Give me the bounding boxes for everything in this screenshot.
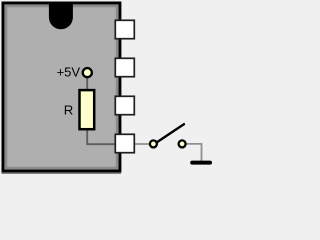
pin 1 bbox=[115, 20, 134, 38]
wire switch S1 to ground bbox=[187, 144, 202, 162]
IC notch bbox=[49, 2, 73, 30]
pin 4 bbox=[115, 134, 134, 152]
ground bbox=[192, 161, 210, 165]
switch S1 lever bbox=[157, 124, 184, 142]
node +5V bbox=[83, 68, 92, 77]
pin 3 bbox=[115, 96, 134, 114]
wire pin 4 to switch S1 bbox=[133, 143, 150, 145]
IC body U1 bbox=[2, 3, 122, 174]
wire +5V node to resistor R bbox=[86, 77, 88, 91]
pin 2 bbox=[115, 58, 134, 76]
svg-text:R: R bbox=[64, 102, 74, 117]
switch S1 contact a bbox=[150, 140, 157, 147]
resistor R bbox=[80, 90, 95, 129]
wire resistor R to pin 4 bbox=[87, 129, 116, 144]
svg-text:+5V: +5V bbox=[57, 65, 81, 80]
switch S1 contact b bbox=[179, 140, 186, 147]
